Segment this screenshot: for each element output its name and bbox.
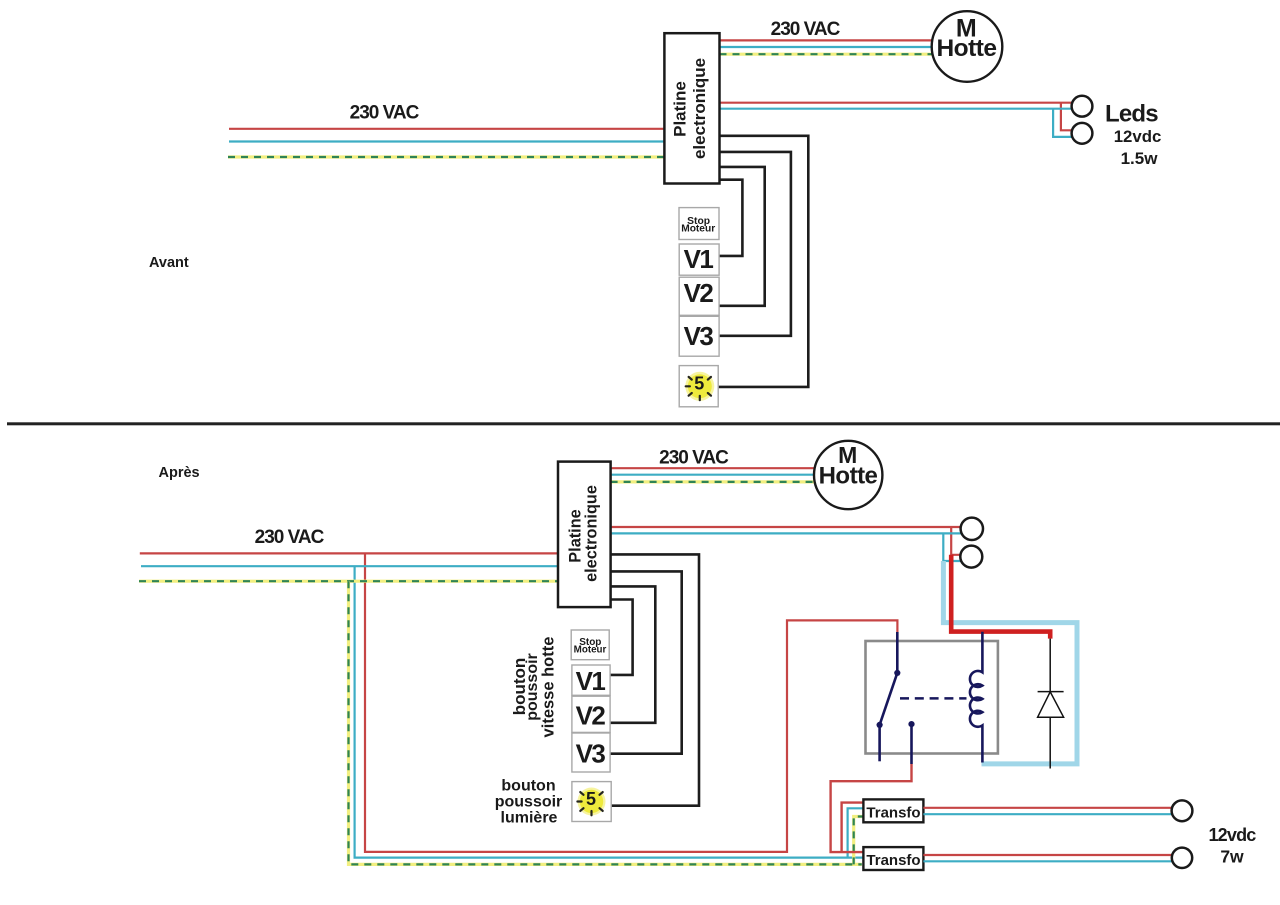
- wire bus button V3 to platine (Apres): [610, 571, 682, 753]
- svg-text:poussoir: poussoir: [495, 794, 563, 811]
- svg-text:V3: V3: [684, 321, 714, 351]
- wire red switched to transfos: [831, 764, 912, 852]
- wire red platine to motor (Apres): [611, 467, 815, 469]
- relay coil L1: [970, 632, 982, 763]
- terminal relay command 1 (Apres): [961, 518, 983, 540]
- terminal relay command 2 (Apres): [960, 546, 982, 568]
- relay K1 box: [866, 641, 998, 754]
- relay switch blade: [880, 670, 901, 725]
- button V2 (Avant): [679, 277, 719, 315]
- label bouton poussoir lumiere: [495, 778, 563, 827]
- button Stop Moteur (Avant): [679, 208, 719, 240]
- svg-text:Transfo: Transfo: [866, 852, 920, 869]
- svg-text:Avant: Avant: [149, 255, 189, 271]
- terminal led 1 (Avant): [1072, 96, 1093, 117]
- terminal 12v output 2: [1172, 848, 1192, 868]
- wire blue transfo T2 output: [923, 860, 1172, 862]
- wire bus button V1 to platine (Avant): [719, 180, 742, 256]
- wire bus lamp button to platine (Apres): [610, 554, 699, 805]
- button Stop Moteur (Apres): [571, 630, 609, 660]
- label 12vdc 7w: [1208, 825, 1256, 867]
- svg-text:vitesse hotte: vitesse hotte: [540, 637, 558, 738]
- svg-text:230 VAC: 230 VAC: [659, 448, 729, 469]
- wire blue neutral mains (Avant): [229, 140, 664, 142]
- svg-text:V2: V2: [576, 700, 606, 730]
- wire blue platine to motor (Apres): [611, 474, 814, 476]
- wire blue platine to relay terminal 2 (Apres): [611, 533, 962, 561]
- platine electronique box (Avant): [664, 33, 719, 183]
- label Leds 12vdc 1.5w: [1105, 100, 1161, 168]
- svg-text:V1: V1: [684, 244, 714, 274]
- transfo T1 box: [863, 799, 923, 822]
- wire blue platine to leds (Avant): [720, 109, 1073, 137]
- wire earth mains (Avant): [228, 155, 664, 158]
- svg-text:5: 5: [694, 374, 704, 394]
- wire thick red coil feed: [951, 555, 1050, 639]
- label Platine electronique (Apres): [567, 485, 601, 582]
- button V3 (Avant): [679, 316, 719, 356]
- svg-text:230 VAC: 230 VAC: [350, 102, 420, 123]
- relay switch common pin: [896, 632, 899, 673]
- relay switch NC contact pin: [877, 722, 883, 761]
- terminal led 2 (Avant): [1072, 123, 1093, 144]
- button lamp (Avant): [679, 366, 718, 407]
- wire red transfo T1 output: [923, 807, 1171, 809]
- label bouton poussoir vitesse hotte: [510, 637, 558, 738]
- wire red platine to leds (Avant): [720, 103, 1073, 131]
- svg-text:Moteur: Moteur: [681, 224, 715, 235]
- motor M Hotte (Avant): [932, 11, 1003, 82]
- button V2 (Apres): [572, 696, 610, 732]
- wire blue platine to motor (Avant): [720, 46, 934, 48]
- wire thick blue coil return: [943, 561, 1077, 764]
- wire red platine to relay terminal 1 (Apres): [611, 527, 961, 555]
- wire red platine to motor (Avant): [720, 39, 934, 41]
- wire bus button V1 to platine (Apres): [610, 600, 633, 675]
- svg-text:Hotte: Hotte: [819, 463, 878, 490]
- wire earth horizontal (Apres): [139, 580, 558, 583]
- wire earth platine to motor (Avant): [720, 53, 935, 56]
- button V3 (Apres): [572, 733, 610, 772]
- wire earth branch down to transfos (Apres): [349, 581, 864, 864]
- svg-text:V1: V1: [576, 666, 606, 696]
- svg-text:electronique: electronique: [690, 58, 709, 159]
- wire red live branch down to relay common (Apres): [365, 553, 897, 852]
- relay switch NO contact pin: [908, 721, 914, 764]
- transfo T2 box: [863, 847, 923, 870]
- svg-text:V3: V3: [576, 739, 606, 769]
- svg-text:12vdc: 12vdc: [1208, 825, 1256, 845]
- svg-text:12vdc: 12vdc: [1114, 127, 1162, 146]
- wire earth platine to motor (Apres): [611, 480, 815, 483]
- svg-text:lumière: lumière: [501, 810, 558, 827]
- label Platine electronique (Avant): [671, 58, 710, 159]
- svg-text:Leds: Leds: [1105, 100, 1158, 127]
- wire bus button V3 to platine (Avant): [719, 152, 791, 336]
- svg-text:Platine: Platine: [671, 81, 690, 137]
- svg-text:5: 5: [586, 789, 596, 809]
- svg-text:Transfo: Transfo: [866, 805, 920, 822]
- svg-text:Hotte: Hotte: [936, 35, 996, 62]
- svg-text:Après: Après: [159, 465, 200, 481]
- terminal 12v output 1: [1172, 800, 1193, 821]
- wire bus button V2 to platine (Avant): [719, 167, 765, 306]
- svg-text:1.5w: 1.5w: [1121, 149, 1159, 168]
- svg-text:electronique: electronique: [583, 485, 601, 582]
- wire bus button V2 to platine (Apres): [610, 586, 655, 722]
- relay actuator dashed link: [900, 697, 967, 700]
- section divider: [7, 422, 1280, 425]
- svg-text:Moteur: Moteur: [574, 645, 607, 656]
- wire red mains horizontal (Apres): [140, 552, 558, 554]
- wire red mains (Avant): [229, 128, 664, 130]
- wire bus lamp button to platine (Avant): [719, 136, 809, 387]
- svg-text:poussoir: poussoir: [524, 653, 541, 721]
- button V1 (Avant): [679, 244, 719, 275]
- svg-text:230 VAC: 230 VAC: [771, 19, 841, 40]
- wire blue transfo T1 output: [923, 813, 1172, 815]
- diode D1: [1038, 639, 1064, 769]
- button lamp (Apres): [572, 782, 611, 822]
- wire blue neutral horizontal (Apres): [141, 565, 558, 567]
- button V1 (Apres): [572, 665, 610, 696]
- svg-text:bouton: bouton: [501, 778, 555, 795]
- svg-text:7w: 7w: [1220, 847, 1244, 867]
- platine electronique box (Apres): [558, 462, 611, 607]
- wire blue neutral branch down to transfos (Apres): [355, 566, 864, 857]
- wire red transfo T2 output: [923, 854, 1171, 856]
- svg-text:230 VAC: 230 VAC: [255, 527, 325, 548]
- svg-text:V2: V2: [684, 278, 714, 308]
- motor M Hotte (Apres): [814, 441, 882, 509]
